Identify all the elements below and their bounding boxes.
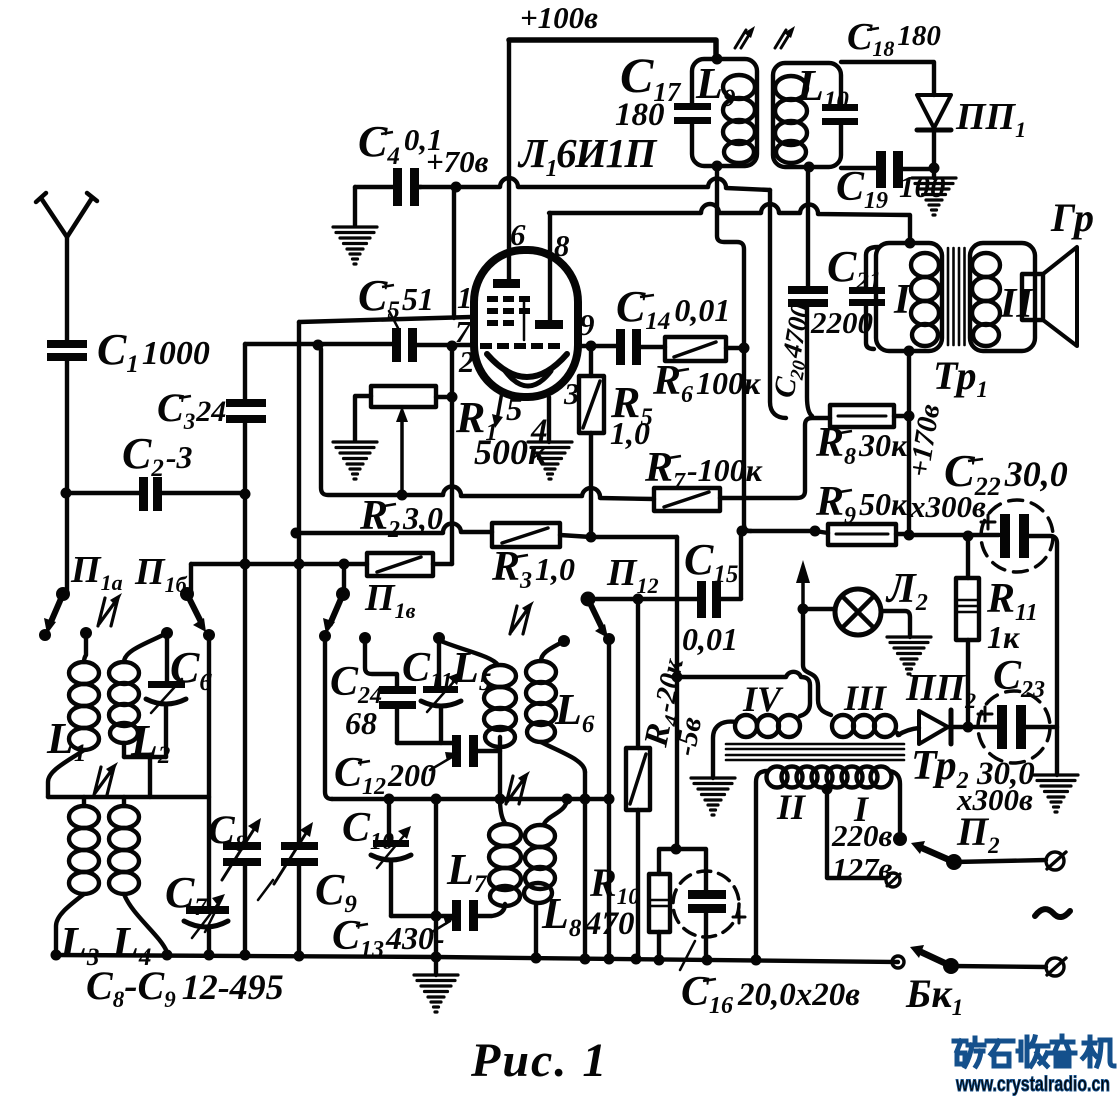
transformer Тр2 primary winding: [756, 767, 900, 960]
watermark CJK 收: [1018, 1037, 1048, 1066]
node junction V1/C2: [240, 489, 251, 500]
inductor L3: [56, 797, 99, 956]
R1 wiper arrow: [396, 406, 408, 492]
node dot C13 line: [431, 911, 442, 922]
node dot pin9/R5: [586, 341, 597, 352]
node junction grid wire: [313, 340, 324, 351]
wire V1 vertical x245 down to rail: [243, 344, 247, 955]
watermark CJK 矿: [954, 1038, 984, 1066]
capacitor C6 trimmer: [146, 635, 186, 757]
overbar C18: [867, 28, 879, 30]
node dot y531/x741: [737, 526, 748, 537]
watermark CJK 机: [1083, 1037, 1114, 1066]
wire L5/C12 riser x500: [498, 737, 502, 799]
terminal 127в: [886, 873, 900, 887]
node dot L10 bottom: [804, 162, 815, 173]
resistor R7: [654, 488, 720, 511]
inductor L1: [48, 633, 99, 797]
transformer L10 tank box: [773, 63, 841, 167]
svg-text:х300в: х300в: [909, 489, 986, 524]
svg-text:+70в: +70в: [426, 144, 489, 179]
svg-text:2: 2: [458, 344, 475, 379]
svg-text:I: I: [893, 277, 912, 323]
ground under C4: [333, 227, 377, 264]
svg-text:II: II: [999, 281, 1034, 327]
resistor R5: [579, 346, 604, 537]
watermark CJK 石: [987, 1041, 1013, 1066]
overbar C16: [703, 979, 716, 981]
transformer Tp1 core: [948, 248, 965, 345]
tube pin5 cathode arrow: [492, 392, 503, 428]
wire C24/C11 bottom to C12: [397, 741, 454, 745]
wire +170в vertical: [907, 351, 911, 535]
wire screen line from pin 8 to Tp1 (hops at x710,x770,x809): [549, 204, 910, 243]
capacitor C11 trimmer: [421, 638, 461, 743]
resistor R4: [626, 599, 650, 959]
node +100в supply rail: [509, 40, 716, 59]
node dot C16 top: [671, 844, 682, 855]
inductor L6: [526, 641, 585, 772]
svg-text:9: 9: [579, 307, 595, 342]
svg-text:C1620,0х20в: C1620,0х20в: [681, 969, 860, 1019]
svg-text:470: 470: [584, 906, 635, 942]
wire antenna down to switch П1а: [65, 361, 69, 594]
node dots on bus y564: [240, 559, 350, 570]
wire contact riser x325 down to bus y799: [325, 636, 332, 799]
overbar C4: [381, 132, 393, 134]
tube pin 4 lead to ground: [547, 397, 551, 442]
overbar R8: [840, 431, 852, 433]
svg-text:6: 6: [510, 217, 526, 252]
resistor R3 box: [367, 553, 433, 576]
node rail dots: [51, 950, 762, 966]
wire bus y799: [332, 797, 609, 801]
wire П2 to terminal: [954, 860, 1046, 862]
capacitor C7 trimmer: [184, 894, 229, 938]
wire cathode vertical x452: [450, 346, 454, 564]
wire R8 line y416: [894, 414, 909, 418]
wire band bus y564 with R3: [191, 562, 452, 566]
resistor R11: [956, 536, 979, 727]
antenna: [36, 193, 97, 341]
node junction antenna/C2: [61, 488, 72, 499]
tube cathode arcs: [487, 354, 567, 386]
wire C23 line y727: [953, 725, 1057, 729]
ground under Л2: [887, 637, 931, 674]
tube pin 8 lead: [548, 213, 552, 321]
switch П1а arm: [44, 587, 70, 634]
wire П12 contact riser x609 to rail: [607, 639, 611, 959]
AC symbol ~: [1035, 909, 1070, 917]
wire 127в tap: [827, 789, 884, 878]
node dot R8 right: [904, 411, 915, 422]
ground below rail center: [414, 957, 458, 1012]
wire grid line with C5 to pin 7: [245, 344, 474, 345]
inductor L7: [489, 799, 521, 906]
ground under R1: [333, 442, 377, 479]
overbar R2: [384, 504, 396, 506]
capacitor C9 variable: [258, 822, 318, 900]
wire C15 right riser to node y531: [739, 531, 743, 599]
wire C13 line y916: [391, 904, 505, 916]
terminal Бк1 right: [1046, 958, 1066, 976]
node junction dot +70в: [451, 182, 462, 193]
svg-text:220в: 220в: [831, 818, 893, 853]
capacitor C3: [226, 399, 266, 423]
wire x436 vertical to rail: [434, 799, 438, 957]
inductor L8: [524, 799, 567, 959]
И mark upper-left tank: [98, 593, 122, 626]
arrow up at Тр2 winding III: [796, 560, 810, 609]
node Бк1 contact: [892, 956, 904, 968]
tube anode bar pin6: [493, 279, 520, 288]
svg-text:1,0: 1,0: [610, 415, 650, 451]
svg-text:2200: 2200: [810, 305, 873, 340]
tube pin 6 lead: [507, 40, 511, 280]
svg-text:www.crystalradio.cn: www.crystalradio.cn: [955, 1073, 1110, 1096]
capacitor C20 line from L10 bottom: [807, 167, 812, 416]
ground under winding IV: [691, 778, 735, 815]
node junction R1 right: [447, 392, 458, 403]
svg-text:IV: IV: [742, 679, 784, 719]
И mark above L10: [775, 26, 795, 48]
overbar R9: [840, 490, 852, 492]
node dot V2/bus533: [291, 528, 302, 539]
capacitor C21: [849, 247, 885, 349]
capacitor C12: [430, 735, 500, 770]
node dot 220в: [893, 832, 907, 846]
svg-text:4: 4: [530, 413, 548, 449]
resistor R3-1,0 box on bus y533: [492, 523, 560, 547]
tube grid dashes: [480, 296, 560, 349]
wire descender from +70в line to R8 corner: [770, 190, 786, 418]
overbar C5: [382, 285, 394, 287]
wire C22 line y536: [909, 535, 1057, 775]
switch П1в contacts: [319, 630, 570, 647]
transformer L9 tank box: [692, 59, 757, 166]
svg-text:1: 1: [457, 280, 473, 315]
И mark lower-left tank: [94, 762, 118, 795]
wire lamp right to ground: [881, 611, 910, 637]
svg-text:+100в: +100в: [520, 0, 598, 35]
switch П12 arm: [581, 592, 609, 639]
overbar C3: [179, 396, 191, 398]
switch П1а contacts: [39, 627, 215, 641]
lamp Л2: [835, 589, 881, 635]
svg-text:II: II: [776, 787, 807, 827]
wire screen feed riser to pin 1: [452, 187, 456, 318]
terminal П2 right: [1046, 852, 1066, 870]
node junction pin7: [447, 341, 458, 352]
svg-text:R950к: R950к: [815, 479, 908, 529]
capacitor C18 on L10 box: [822, 104, 858, 125]
node dot wiper base: [397, 490, 408, 501]
wire П12 pivot line y599 with C15: [588, 597, 741, 601]
capacitor C10 trimmer: [371, 799, 411, 916]
node dot R6 right: [739, 343, 750, 354]
svg-text:180: 180: [615, 97, 665, 133]
svg-text:127в: 127в: [832, 851, 893, 886]
watermark CJK 音: [1050, 1036, 1075, 1066]
speaker Гр: [1022, 247, 1077, 346]
svg-text:Гр: Гр: [1050, 195, 1094, 240]
wire y677 to winding IV: [677, 672, 810, 716]
node dot lamp riser: [798, 604, 809, 615]
resistor R6: [665, 337, 744, 361]
node dot R5 bottom: [586, 532, 597, 543]
resistor R8: [830, 405, 894, 427]
node dot Tp1 top: [905, 238, 916, 249]
overbar C13: [356, 924, 368, 926]
wire R7 right to R8 riser (hop at x744): [720, 418, 830, 498]
wire ground rail: [56, 955, 898, 962]
overbar R6: [677, 369, 689, 371]
wire Бк1 to terminal: [951, 966, 1046, 967]
svg-text:68: 68: [345, 705, 377, 741]
transformer Tp1 secondary box: [970, 243, 1035, 351]
И mark above L9: [735, 26, 755, 48]
wire V2 vertical x299 down to rail: [297, 322, 301, 956]
node dot winding tap: [822, 784, 833, 795]
wire oscillator grid to pin 1 elbow: [299, 317, 471, 322]
node dot x815: [810, 526, 821, 537]
node dot y677 takeoff: [672, 672, 683, 683]
switch П1б arm: [180, 587, 206, 632]
capacitor C14: [616, 329, 641, 365]
wire switch bus vertical x209 with C7: [207, 635, 211, 955]
wire AGC bus y531 to R9: [744, 531, 909, 534]
inductor L4: [109, 797, 167, 952]
capacitor C17 on L9 box: [674, 103, 711, 124]
svg-text:0,01: 0,01: [682, 621, 738, 657]
node П12 contact: [603, 633, 615, 645]
overbar R3: [516, 555, 528, 557]
wire R2 line y495 (hops at x452,x591): [321, 349, 654, 499]
resistor R1 potentiometer: [355, 386, 452, 440]
transformer Тр2 winding III: [832, 715, 899, 737]
svg-text:R6100к: R6100к: [652, 358, 761, 408]
svg-text:100: 100: [899, 169, 946, 204]
wire pin9 line with C14: [578, 346, 665, 347]
inductor L5: [441, 641, 516, 747]
node dot R9 right: [904, 530, 915, 541]
capacitor C22 electrolytic: [981, 500, 1053, 572]
И mark L5 tank: [510, 601, 534, 634]
transformer Тр2 winding IV: [713, 715, 800, 778]
diode ПП2: [898, 710, 951, 744]
transformer Тр2 core: [726, 744, 904, 760]
wire lamp left: [803, 607, 835, 611]
ground under tube pin 4: [528, 442, 572, 479]
wire C16 top link: [659, 849, 706, 874]
svg-text:Рис. 1: Рис. 1: [470, 1034, 608, 1087]
svg-text:5: 5: [506, 392, 523, 428]
inductor L2: [109, 633, 167, 757]
switch Бк1 arm: [910, 945, 959, 974]
wire riser to winding III: [803, 609, 831, 715]
svg-text:III: III: [843, 678, 888, 718]
node dot L9 top: [712, 54, 723, 65]
wire П1б riser: [189, 564, 193, 594]
ground under ПП1: [912, 178, 956, 215]
svg-text:3: 3: [563, 376, 580, 411]
capacitor C23 electrolytic: [978, 691, 1050, 763]
capacitor C8 variable: [205, 818, 261, 932]
overbar C22: [968, 459, 983, 461]
node dot L9 bottom: [712, 161, 723, 172]
wire upper tank bottom bus: [124, 757, 166, 797]
wire x676 vertical (bus533 corner down to C16): [675, 537, 679, 849]
node dot Tp1 bottom: [904, 346, 915, 357]
tube U1 envelope: [474, 250, 578, 397]
capacitor C2: [139, 477, 162, 511]
svg-text:Л16И1П: Л16И1П: [517, 130, 658, 182]
ground under C22/C23: [1034, 775, 1078, 812]
svg-text:C13430-: C13430-: [332, 913, 445, 963]
capacitor C1: [47, 340, 87, 361]
wire L6 riser x585 to rail: [583, 772, 587, 959]
capacitor C15: [697, 581, 721, 618]
overbar C12: [358, 761, 370, 763]
И mark L7 tank: [506, 771, 530, 804]
resistor R10: [649, 874, 670, 960]
diode ПП1: [917, 95, 951, 178]
node dot R4 tap: [633, 594, 644, 605]
svg-text:1к: 1к: [987, 619, 1020, 655]
transformer Tp1 primary box: [876, 243, 942, 351]
tube internal link line: [523, 298, 526, 340]
capacitor C16 electrolytic with R10: [673, 870, 745, 970]
capacitor C4: [355, 168, 421, 225]
node dots bus y799: [384, 794, 615, 805]
node dot R11 bottom: [963, 722, 974, 733]
capacitor C20 plates: [788, 286, 828, 307]
capacitor C19: [876, 151, 903, 188]
wire C19 line: [841, 168, 934, 169]
resistor R9: [828, 524, 896, 545]
wire tank middle bus y797: [48, 795, 209, 799]
node dot diode/C19: [929, 163, 940, 174]
switch П1в arm: [323, 564, 350, 634]
tube anode bar pin8: [535, 320, 563, 329]
wire L9 bottom riser down to AGC bus: [717, 166, 751, 531]
overbar R7: [669, 456, 681, 458]
wire L10 top to diode ПП1: [841, 62, 934, 95]
node dot R11 top: [963, 531, 974, 542]
capacitor C24: [365, 638, 416, 743]
wire +70в line (C4 to grid network, hops at x509,x717): [419, 178, 770, 190]
overbar C14: [640, 295, 654, 297]
svg-text:R830к: R830к: [815, 420, 908, 470]
wire C2 line: [65, 491, 245, 495]
switch П2 arm: [911, 841, 962, 870]
capacitor C5: [389, 311, 417, 362]
svg-text:8: 8: [554, 228, 570, 263]
wire detector bus y533 (hop at x452): [296, 523, 677, 537]
svg-text:R7-100к: R7-100к: [644, 445, 763, 495]
capacitor C13: [432, 900, 478, 932]
